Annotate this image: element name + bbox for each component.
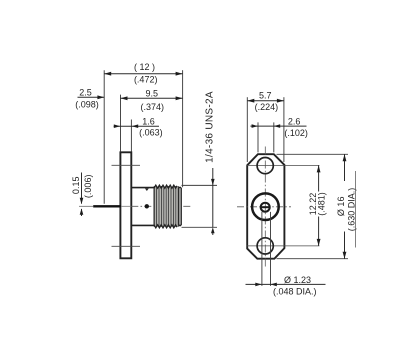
2.6 extension line left [257,122,259,152]
dimension 2.5 leader with arrow [78,96,105,98]
body end face line 2 [180,188,182,226]
lower hole centerline + extension to 12.22 dim [247,245,320,247]
thread section shading [154,187,179,227]
svg-text:(.098): (.098) [75,100,99,110]
svg-text:(.048 DIA.): (.048 DIA.) [273,287,317,297]
thread crest lines (vertical) [154,186,178,227]
upper mounting hole [257,158,273,174]
0.15 pin dimension line (vertical) [81,173,83,204]
body end face line 1 [178,188,180,226]
O16 extension line bottom [277,258,349,260]
SIDE VIEW GROUP [71,62,217,258]
flange plate (side view) [120,152,131,258]
svg-text:1/4-36 UNS-2A: 1/4-36 UNS-2A [204,91,215,163]
vertical centerline (front) [264,147,266,268]
O16 dimension line (vertical) [344,154,346,181]
thread crest teeth bottom [154,225,177,228]
upper mounting hole centerline (side) [112,164,141,166]
body bottom edge [131,224,181,226]
FRONT VIEW GROUP [237,90,357,296]
dimension (12)/(.472) line [104,73,182,75]
thread crest teeth top [154,185,177,188]
svg-text:2.6: 2.6 [288,116,301,126]
thread OD extension line top [182,184,218,186]
dimension 5.7 line [247,100,284,102]
thread start line [153,187,155,226]
center axis horizontal centerline [237,206,291,208]
dimension 1.6 line with outside arrows [114,125,159,127]
small mark under body top edge [145,188,149,191]
lower mounting hole centerline (side) [112,245,141,247]
pin leader (thin) [79,205,93,207]
5.7 extension line right [283,97,285,162]
O1.23 extension line left [261,212,263,286]
svg-text:2.5: 2.5 [79,87,92,97]
contact slot bar [261,206,270,208]
dimension 9.5 line [121,97,183,99]
O1.23 extension line right [270,212,272,286]
svg-text:( 12 ): ( 12 ) [134,62,155,72]
O16 extension line top [277,153,349,155]
svg-text:(.006): (.006) [83,175,93,199]
extension line flange left face [120,95,122,152]
svg-text:(.102): (.102) [284,128,308,138]
extension line at body right end [182,70,184,187]
flange outline (octagon, front view) [247,154,284,259]
thread highlight lines (vertical) [155,187,177,226]
12.22 dimension line (vertical) [318,165,320,191]
center contact hole circle [261,203,270,212]
extension line from pin tip (overall length datum) [103,70,105,204]
solder dot on axis [145,204,149,208]
svg-text:(.481): (.481) [316,192,326,216]
axis centerline through flange [121,205,131,207]
dimension 2.6 line with outside arrows and leader [250,125,306,127]
svg-text:(.472): (.472) [134,75,158,85]
body top edge [131,187,181,189]
body end face gap [179,188,180,224]
svg-text:9.5: 9.5 [145,88,158,98]
svg-text:0.15: 0.15 [71,177,81,195]
svg-text:5.7: 5.7 [259,90,272,100]
extension line flange right face [130,120,132,152]
svg-text:Ø 16: Ø 16 [336,197,346,217]
5.7 extension line left [246,97,248,162]
connector body circle (thick) [252,193,279,220]
thread callout dimension line with arrows [212,168,214,227]
svg-text:(.374): (.374) [141,102,165,112]
upper hole centerline + extension to 12.22 dim [247,164,320,166]
O1.23 leader line with outside arrows [246,283,326,285]
svg-text:1.6: 1.6 [142,116,155,126]
center contact pin [93,205,121,207]
svg-text:(.063): (.063) [139,128,163,138]
auxiliary vertical line right of (.630 DIA.) [354,171,356,248]
svg-text:(.224): (.224) [255,102,279,112]
thread OD extension line bottom [182,226,218,228]
2.6 extension line right [273,122,275,152]
lower mounting hole [257,238,273,254]
axis centerline of body [131,205,190,207]
svg-text:Ø 1.23: Ø 1.23 [284,275,311,285]
